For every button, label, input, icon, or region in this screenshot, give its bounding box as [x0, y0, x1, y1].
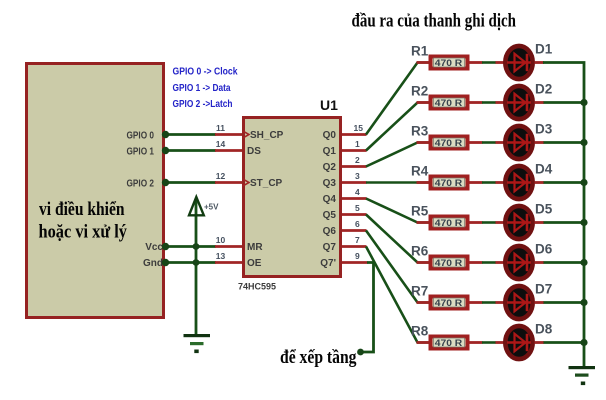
svg-text:GPIO 0: GPIO 0 — [127, 131, 155, 142]
microcontroller box — [27, 64, 164, 318]
resistor R1 — [411, 44, 483, 69]
svg-text:Q5: Q5 — [323, 210, 337, 221]
junction dot GPIO0 — [162, 131, 169, 138]
pin stub Q0 (red) — [342, 133, 367, 136]
svg-text:11: 11 — [216, 123, 225, 133]
svg-text:6: 6 — [355, 219, 360, 229]
svg-text:15: 15 — [354, 123, 364, 133]
terminal dot cascade — [357, 349, 364, 356]
wire GPIO0 to SH_CP (green) — [165, 133, 216, 136]
pin stub Q2 (red) — [342, 165, 367, 168]
svg-text:D6: D6 — [535, 242, 553, 257]
LED D8 — [505, 322, 552, 360]
wire Q1 to R2 (green diagonal) — [366, 103, 429, 151]
junction dot rail D8 — [580, 339, 587, 346]
wire Q5 to R6 (green diagonal) — [366, 215, 429, 263]
resistor R2 — [411, 84, 483, 109]
junction dot rail-Vcc — [193, 243, 200, 250]
LED D5 — [505, 202, 552, 240]
svg-text:Gnd: Gnd — [143, 258, 163, 269]
svg-text:12: 12 — [216, 171, 226, 181]
wire R7 to D7 — [482, 301, 504, 304]
svg-text:7: 7 — [355, 235, 360, 245]
wire R1 to D1 — [482, 61, 504, 64]
pin stub Q6 (red) — [342, 229, 367, 232]
svg-text:R1: R1 — [411, 44, 429, 59]
wire R4 to D4 — [482, 181, 504, 184]
svg-text:+5V: +5V — [204, 203, 219, 212]
svg-text:R6: R6 — [411, 244, 429, 259]
pin stub Q1 (red) — [342, 149, 367, 152]
svg-text:Q6: Q6 — [323, 226, 337, 237]
wire Q7 to R8 (green diagonal) — [366, 247, 429, 343]
wire D5 to rail (green) — [544, 221, 585, 224]
junction dot GPIO2 — [162, 179, 169, 186]
svg-text:R5: R5 — [411, 204, 429, 219]
svg-text:74HC595: 74HC595 — [238, 282, 276, 292]
IC U1 74HC595 body — [244, 118, 341, 277]
wire R5 to D5 — [482, 221, 504, 224]
junction dot rail D7 — [580, 299, 587, 306]
resistor R8 — [411, 324, 483, 349]
clock arrow ST_CP — [243, 179, 250, 186]
svg-text:để xếp tầng: để xếp tầng — [280, 347, 357, 368]
pin stub D5 right (red) — [535, 221, 545, 224]
junction dot Gnd — [162, 259, 169, 266]
pin stub Q3 (red) — [342, 181, 367, 184]
svg-text:SH_CP: SH_CP — [250, 130, 284, 141]
junction dot rail D4 — [580, 179, 587, 186]
pin stub OE (red) — [215, 261, 242, 264]
svg-text:2: 2 — [355, 155, 360, 165]
ground symbol left — [184, 334, 211, 353]
resistor R6 — [411, 244, 483, 269]
svg-text:470 R: 470 R — [435, 98, 463, 108]
junction dot Vcc — [162, 243, 169, 250]
LED D2 — [505, 82, 552, 120]
svg-text:R2: R2 — [411, 84, 428, 99]
junction dot GPIO1 — [162, 147, 169, 154]
junction dot rail D2 — [580, 99, 587, 106]
clock arrow SH_CP — [243, 131, 250, 138]
svg-text:10: 10 — [216, 235, 226, 245]
svg-text:1: 1 — [355, 139, 360, 149]
svg-text:470 R: 470 R — [435, 298, 463, 308]
svg-text:U1: U1 — [320, 97, 338, 113]
LED D3 — [505, 122, 552, 160]
wire Q4 to R5 (green diagonal) — [366, 199, 429, 223]
pin stub D1 right (red) — [535, 61, 545, 64]
pin stub DS (red) — [215, 149, 242, 152]
svg-text:Q0: Q0 — [323, 130, 337, 141]
resistor R7 — [411, 284, 483, 309]
wire D6 to rail (green) — [544, 261, 585, 264]
svg-text:470 R: 470 R — [435, 58, 463, 68]
junction dot rail D3 — [580, 139, 587, 146]
svg-text:Vcc: Vcc — [145, 242, 163, 253]
right rail vertical wire — [543, 63, 584, 367]
wire R2 to D2 — [482, 101, 504, 104]
svg-text:14: 14 — [216, 139, 226, 149]
svg-text:Q7': Q7' — [320, 258, 336, 269]
svg-text:Q7: Q7 — [323, 242, 337, 253]
wire R3 to D3 — [482, 141, 504, 144]
pin stub D8 right (red) — [535, 341, 545, 344]
svg-text:Q2: Q2 — [323, 162, 337, 173]
junction dot rail D6 — [580, 259, 587, 266]
svg-text:R8: R8 — [411, 324, 429, 339]
resistor R3 — [411, 124, 483, 149]
pin stub D7 right (red) — [535, 301, 545, 304]
pin stub MR (red) — [215, 245, 242, 248]
power symbol +5V arrow — [189, 197, 204, 215]
svg-text:GPIO 2: GPIO 2 — [127, 179, 155, 190]
svg-text:GPIO 1 -> Data: GPIO 1 -> Data — [173, 83, 231, 94]
svg-text:GPIO 1: GPIO 1 — [127, 147, 155, 158]
LED D7 — [505, 282, 552, 320]
wire D7 to rail (green) — [544, 301, 585, 304]
pin stub ST_CP (red) — [215, 181, 242, 184]
svg-text:D7: D7 — [535, 282, 552, 297]
wire D2 to rail (green) — [544, 101, 585, 104]
svg-text:D3: D3 — [535, 122, 553, 137]
svg-text:R3: R3 — [411, 124, 429, 139]
wire GPIO2 to ST_CP (green) — [165, 181, 216, 184]
svg-text:470 R: 470 R — [435, 258, 463, 268]
wire Gnd to OE (green) — [165, 261, 216, 264]
svg-text:D5: D5 — [535, 202, 553, 217]
wire Q7' cascade (green) — [361, 263, 374, 353]
svg-text:470 R: 470 R — [435, 178, 463, 188]
wire Vcc to MR (green) — [165, 245, 216, 248]
pin stub Q4 (red) — [342, 197, 367, 200]
svg-text:Q4: Q4 — [323, 194, 337, 205]
svg-text:hoặc vi xử lý: hoặc vi xử lý — [39, 222, 128, 243]
wire Q6 to R7 (green diagonal) — [366, 231, 429, 303]
pin stub D3 right (red) — [535, 141, 545, 144]
pin stub D6 right (red) — [535, 261, 545, 264]
svg-text:9: 9 — [355, 251, 360, 261]
LED D6 — [505, 242, 552, 280]
svg-text:D1: D1 — [535, 42, 553, 57]
pin stub Q7' (red) — [342, 261, 368, 264]
svg-text:vi điều khiển: vi điều khiển — [39, 199, 125, 220]
wire Q3 to R4 (green) — [366, 181, 429, 184]
svg-text:470 R: 470 R — [435, 338, 463, 348]
svg-text:3: 3 — [355, 171, 360, 181]
wire D3 to rail (green) — [544, 141, 585, 144]
svg-text:OE: OE — [247, 258, 262, 269]
junction dot rail-Gnd — [193, 259, 200, 266]
wire D4 to rail (green) — [544, 181, 585, 184]
wire D8 to rail (green) — [544, 341, 585, 344]
svg-text:đầu ra của thanh ghi dịch: đầu ra của thanh ghi dịch — [352, 11, 517, 32]
pin stub SH_CP (red) — [215, 133, 242, 136]
svg-text:GPIO 2 ->Latch: GPIO 2 ->Latch — [173, 99, 233, 110]
wire R6 to D6 — [482, 261, 504, 264]
wire Q0 to R1 (green diagonal) — [366, 63, 429, 135]
svg-text:D8: D8 — [535, 322, 553, 337]
svg-text:Q3: Q3 — [323, 178, 337, 189]
svg-text:ST_CP: ST_CP — [250, 178, 283, 189]
LED D4 — [505, 162, 552, 200]
pin stub D4 right (red) — [535, 181, 545, 184]
svg-text:R4: R4 — [411, 164, 429, 179]
pin stub D2 right (red) — [535, 101, 545, 104]
wire R8 to D8 — [482, 341, 504, 344]
pin stub Q5 (red) — [342, 213, 367, 216]
svg-text:R7: R7 — [411, 284, 428, 299]
svg-text:GPIO 0 -> Clock: GPIO 0 -> Clock — [173, 67, 238, 78]
svg-text:MR: MR — [247, 242, 263, 253]
svg-text:DS: DS — [247, 146, 261, 157]
wire GPIO1 to DS (green) — [165, 149, 216, 152]
svg-text:D2: D2 — [535, 82, 552, 97]
LED D1 — [505, 42, 552, 80]
wire Q2 to R3 (green diagonal) — [366, 143, 429, 167]
svg-text:470 R: 470 R — [435, 138, 463, 148]
ground symbol right — [569, 366, 596, 385]
svg-text:Q1: Q1 — [323, 146, 337, 157]
svg-text:13: 13 — [216, 251, 226, 261]
svg-text:D4: D4 — [535, 162, 553, 177]
resistor R4 — [411, 164, 483, 189]
svg-text:470 R: 470 R — [435, 218, 463, 228]
svg-text:5: 5 — [355, 203, 360, 213]
junction dot rail D5 — [580, 219, 587, 226]
pin stub Q7 (red) — [342, 245, 367, 248]
svg-text:4: 4 — [355, 187, 360, 197]
power rail +5V vertical wire — [195, 198, 198, 335]
resistor R5 — [411, 204, 483, 229]
